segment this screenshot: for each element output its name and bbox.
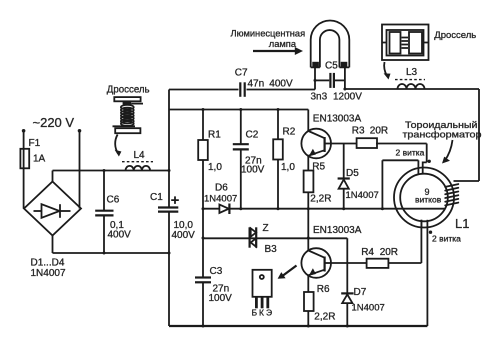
svg-text:~220 V: ~220 V — [33, 115, 75, 130]
wire top lamp line from C1 column to C7 — [169, 89, 239, 91]
resistor R6 2,2R — [304, 284, 335, 326]
choke L3 box drawing top right — [382, 25, 476, 80]
svg-text:F1: F1 — [29, 138, 41, 149]
svg-text:2 витка: 2 витка — [432, 234, 461, 244]
svg-text:C5: C5 — [325, 61, 338, 72]
transistor Q1 EN13003A — [301, 110, 361, 171]
svg-text:R3: R3 — [352, 126, 365, 137]
svg-text:1200V: 1200V — [333, 91, 362, 102]
wire DC+ rail (bridge to C1 column), L4 in line — [53, 170, 170, 172]
svg-text:Z: Z — [263, 223, 269, 234]
svg-text:1N4007: 1N4007 — [346, 190, 379, 201]
wire bottom bus — [169, 325, 427, 327]
svg-text:R2: R2 — [283, 127, 296, 138]
svg-text:R5: R5 — [312, 161, 325, 172]
svg-text:D5: D5 — [346, 168, 359, 179]
capacitor C1 10,0 400V electrolytic — [150, 192, 195, 241]
svg-text:лампа: лампа — [269, 39, 297, 49]
svg-text:К: К — [259, 308, 264, 318]
wire right AC input to bridge right vertex — [79, 133, 81, 209]
wire lamp right pin to L3 and right corner — [345, 68, 479, 89]
diode D6 1N4007 — [204, 182, 237, 214]
wire C1 bottom lead down to bottom bus — [168, 212, 170, 326]
toroid 9-turn winding (right side rungs) — [445, 181, 479, 205]
svg-text:EN13003A: EN13003A — [313, 225, 362, 236]
svg-text:Люминесцентная: Люминесцентная — [231, 29, 306, 39]
wire bridge bottom vertex down to DC- bus — [52, 236, 54, 254]
wire R1/C3 column midpoint to C3 — [202, 209, 204, 278]
svg-text:R1: R1 — [208, 130, 221, 141]
capacitor C5 3n3 1200V between lamp pins — [311, 61, 363, 103]
svg-text:100V: 100V — [241, 165, 265, 176]
svg-text:2,2R: 2,2R — [310, 194, 331, 205]
svg-text:20R: 20R — [380, 247, 398, 258]
wire bridge top vertex to DC+ rail — [52, 171, 54, 182]
resistor R3 20R — [352, 126, 388, 148]
transistor package drawing B K E — [252, 266, 297, 318]
svg-text:100V: 100V — [209, 293, 233, 304]
toroidal transformer L1 — [394, 119, 482, 231]
wire R4 to toroid bottom winding — [388, 220, 421, 263]
svg-text:витков: витков — [415, 195, 442, 205]
choke drawing (Дроссель) top-left — [107, 85, 150, 157]
svg-text:EN13003A: EN13003A — [313, 113, 362, 124]
svg-text:C2: C2 — [246, 130, 259, 141]
svg-text:1,0: 1,0 — [208, 162, 222, 173]
inductor L3 — [395, 67, 425, 89]
svg-text:47n: 47n — [248, 78, 265, 89]
svg-text:C1: C1 — [150, 192, 163, 203]
svg-text:R4: R4 — [361, 247, 374, 258]
svg-text:трансформатор: трансформатор — [403, 128, 482, 139]
svg-text:1N4007: 1N4007 — [352, 303, 385, 314]
capacitor C3 27n 100V — [195, 266, 232, 326]
wire Q2 base to R4 — [331, 262, 367, 264]
svg-text:Дроссель: Дроссель — [107, 85, 150, 96]
transistor Q2 EN13003A — [301, 209, 361, 292]
svg-text:Б: Б — [252, 308, 258, 318]
diode D5 1N4007 — [338, 144, 379, 209]
diode bridge D1...D4 1N4007 — [24, 182, 81, 279]
svg-text:L1: L1 — [455, 216, 469, 231]
wire right side vertical from L3 down to 9-turn winding — [478, 89, 480, 181]
svg-text:L4: L4 — [134, 150, 146, 161]
fluorescent lamp tube — [311, 21, 350, 68]
svg-text:400V: 400V — [269, 78, 293, 89]
wire toroid top winding to midpoint rail — [382, 160, 418, 208]
fuse F1 1A — [20, 138, 45, 168]
svg-text:1N4007: 1N4007 — [204, 194, 237, 205]
wire diac rail — [203, 238, 347, 263]
label fluorescent lamp — [231, 29, 306, 55]
svg-text:3n3: 3n3 — [311, 91, 328, 102]
svg-text:D7: D7 — [354, 287, 367, 298]
wire C1 column corner to top bus — [169, 109, 308, 111]
wire C7 to lamp left pin — [247, 68, 316, 90]
wire main left column (C7 wire down through C1 to bottom bus) — [168, 90, 170, 208]
svg-text:D1...D4: D1...D4 — [31, 257, 65, 268]
svg-text:20R: 20R — [370, 126, 388, 137]
svg-text:2 витка: 2 витка — [396, 148, 425, 158]
svg-text:L3: L3 — [406, 67, 418, 78]
wire midpoint rail — [203, 208, 219, 210]
svg-text:Дроссель: Дроссель — [434, 30, 476, 41]
wire left AC input upper — [23, 133, 25, 149]
svg-text:Э: Э — [266, 308, 272, 318]
svg-text:400V: 400V — [108, 230, 132, 241]
svg-text:C6: C6 — [107, 195, 120, 206]
capacitor C6 0,1 400V — [95, 171, 131, 254]
svg-text:1,0: 1,0 — [281, 162, 295, 173]
svg-text:D6: D6 — [215, 182, 228, 193]
wire R3 to toroid top winding — [376, 144, 427, 163]
svg-text:400V: 400V — [172, 230, 196, 241]
toroid top 2-turn winding — [396, 148, 431, 175]
wire midpoint rail continuing into toroid L1 — [229, 208, 445, 210]
svg-text:B3: B3 — [265, 244, 278, 255]
wire Q1 base to R3 — [331, 143, 356, 145]
svg-text:C7: C7 — [235, 67, 248, 78]
diode D7 1N4007 — [341, 263, 385, 326]
svg-text:C3: C3 — [210, 266, 223, 277]
resistor R1 1,0 — [198, 110, 222, 209]
toroid bottom 2-turn winding — [421, 220, 461, 326]
wire DC- bus (bridge bottom to C1 column) — [53, 252, 170, 254]
resistor R4 20R — [361, 247, 398, 268]
diac Z B3 — [250, 223, 278, 255]
resistor R2 1,0 — [273, 110, 296, 209]
svg-text:1N4007: 1N4007 — [31, 268, 66, 279]
wire F1 to bridge left vertex — [23, 168, 25, 209]
node ~220V input terminals — [22, 115, 81, 133]
capacitor C7 47n 400V — [235, 67, 293, 97]
svg-text:2,2R: 2,2R — [314, 311, 335, 322]
resistor R5 2,2R — [304, 161, 332, 208]
svg-text:R6: R6 — [317, 284, 330, 295]
capacitor C2 27n 100V — [233, 110, 265, 209]
svg-text:1A: 1A — [33, 154, 46, 165]
inductor L4 — [122, 150, 153, 171]
